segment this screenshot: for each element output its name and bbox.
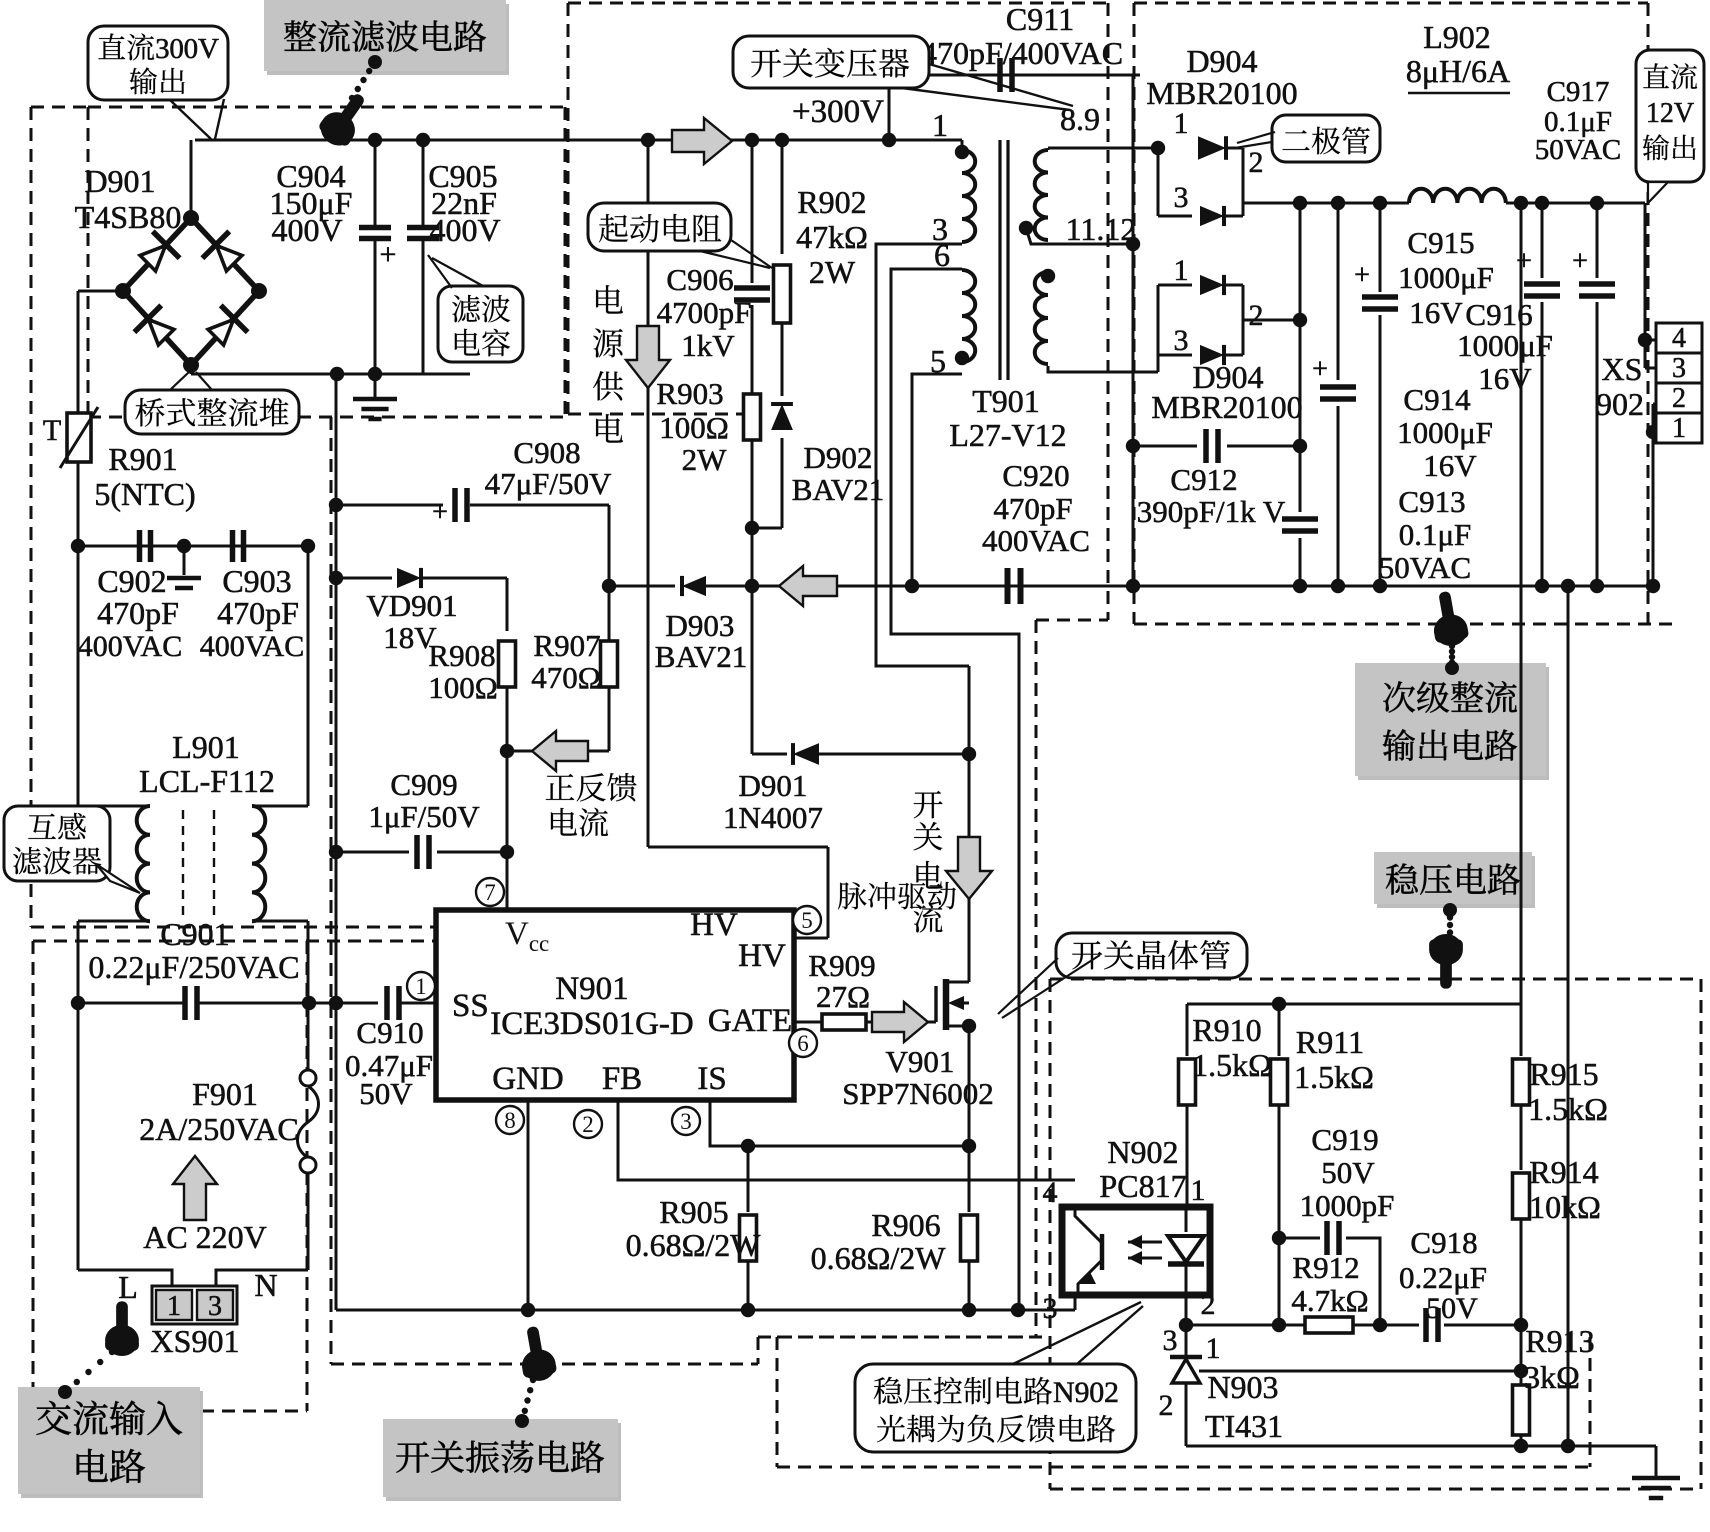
svg-text:SS: SS [452, 988, 489, 1024]
svg-text:4: 4 [1672, 323, 1686, 354]
svg-text:47μF/50V: 47μF/50V [485, 466, 612, 501]
svg-text:IS: IS [697, 1061, 726, 1097]
optocoupler LED [1185, 1207, 1188, 1232]
node dots on +300V rail [368, 133, 382, 147]
wire TL431 ref to divider [1199, 1370, 1521, 1373]
svg-text:D902: D902 [804, 440, 873, 475]
resistor R910 [1186, 1004, 1189, 1056]
capacitor C918 series [1423, 1308, 1429, 1342]
section box: oscillator top segment (dashed) [568, 413, 745, 416]
svg-text:C903: C903 [222, 563, 291, 599]
callout regulation control note [855, 1364, 1136, 1452]
svg-text:HV: HV [738, 938, 786, 974]
wire opto pin3 to primary ground rail [1074, 1295, 1077, 1310]
ground symbol output [1655, 1446, 1658, 1476]
svg-text:470pF/400VAC: 470pF/400VAC [921, 35, 1123, 71]
svg-text:D901: D901 [739, 768, 808, 803]
svg-text:4700pF: 4700pF [657, 295, 752, 330]
svg-text:1: 1 [1174, 254, 1189, 287]
svg-text:D901: D901 [84, 163, 155, 199]
svg-text:GND: GND [492, 1061, 564, 1097]
label C920 continues / C911 snubber top [888, 75, 891, 140]
section box: AC input filter left edge (dashed) [30, 107, 33, 927]
svg-text:1.5kΩ: 1.5kΩ [1528, 1091, 1608, 1127]
svg-text:50V: 50V [1321, 1155, 1375, 1190]
svg-text:L901: L901 [172, 729, 240, 765]
callout startup resistor [588, 203, 731, 251]
wire R903/D902 junction down to D901 line [751, 440, 754, 528]
svg-text:2: 2 [1201, 1288, 1216, 1321]
optocoupler N902 PC817 [1062, 1207, 1210, 1295]
section box: voltage regulator (dashed) [1050, 978, 1701, 981]
capacitor C917 branch [1596, 203, 1599, 278]
gray label secondary rectifier output [1358, 667, 1549, 780]
resistor R912 [1305, 1317, 1353, 1333]
resistor R905 [747, 1146, 750, 1212]
svg-text:2: 2 [1249, 146, 1264, 179]
label power supply feed (vertical) [596, 285, 623, 314]
gray label AC input section [21, 1391, 203, 1498]
svg-text:C908: C908 [513, 435, 580, 470]
callout mutual-inductance filter [4, 806, 110, 881]
svg-text:SPP7N6002: SPP7N6002 [842, 1076, 994, 1111]
ground stub between C902 C903 [183, 546, 186, 575]
svg-text:0.22μF/250VAC: 0.22μF/250VAC [88, 949, 299, 985]
capacitor C920 Y-cap [1005, 568, 1011, 604]
resistor R906 [968, 1146, 971, 1212]
svg-text:C916: C916 [1465, 297, 1532, 332]
gray label oscillator section [386, 1423, 621, 1501]
svg-text:MBR20100: MBR20100 [1151, 389, 1302, 425]
wire HV startup column x=648 [647, 140, 650, 847]
svg-text:50VAC: 50VAC [1379, 550, 1471, 585]
resistor R914 [1520, 1147, 1523, 1170]
svg-text:7: 7 [484, 880, 496, 905]
resistor R915 [1520, 1004, 1523, 1056]
svg-text:N902: N902 [1107, 1134, 1178, 1170]
svg-text:400VAC: 400VAC [200, 630, 304, 663]
svg-text:+: + [1516, 246, 1532, 277]
svg-text:2A/250VAC: 2A/250VAC [139, 1111, 298, 1147]
svg-text:AC 220V: AC 220V [143, 1219, 267, 1255]
wire opto pin2 to feedback node line [1185, 1295, 1188, 1325]
svg-text:R915: R915 [1529, 1056, 1598, 1092]
svg-text:1: 1 [415, 974, 427, 999]
svg-text:2: 2 [1159, 1389, 1174, 1422]
resistor R902 startup [781, 140, 784, 254]
svg-text:R906: R906 [871, 1207, 940, 1243]
svg-text:3: 3 [1174, 324, 1189, 357]
svg-text:PC817: PC817 [1099, 1168, 1186, 1204]
capacitor C909 [336, 851, 409, 854]
svg-text:1: 1 [1206, 1332, 1221, 1365]
svg-text:R913: R913 [1525, 1323, 1594, 1359]
svg-text:3: 3 [1672, 353, 1686, 384]
wire regulator bottom rail [1186, 1445, 1656, 1448]
wire secondary ground line [1133, 585, 1653, 588]
svg-text:T: T [43, 414, 61, 447]
svg-text:C918: C918 [1410, 1225, 1477, 1260]
section box: AC input lower box (dashed) [32, 941, 35, 1411]
fuse F901 [307, 1003, 310, 1071]
svg-text:16V: 16V [1478, 361, 1532, 396]
svg-text:C914: C914 [1403, 382, 1471, 417]
gray label regulator section [1377, 856, 1535, 908]
capacitor C912 snubber [1133, 445, 1197, 448]
svg-text:+: + [380, 238, 397, 271]
label pulse drive [838, 882, 866, 909]
svg-text:MBR20100: MBR20100 [1146, 75, 1297, 111]
zener diode D902 BAV21 [781, 323, 784, 396]
svg-text:R902: R902 [797, 184, 866, 220]
svg-text:C906: C906 [666, 262, 733, 297]
hand pointer rectifier-filter [349, 95, 355, 101]
common-mode choke L901 [77, 546, 80, 806]
svg-text:XS901: XS901 [151, 1323, 240, 1359]
gray arrow feedback left on y=586 [779, 566, 837, 606]
svg-text:11.12: 11.12 [1066, 211, 1137, 247]
wire pin5 to C920 line [912, 374, 962, 586]
svg-text:400V: 400V [271, 212, 342, 248]
svg-text:N901: N901 [555, 971, 628, 1007]
svg-text:C910: C910 [356, 1015, 423, 1050]
svg-text:BAV21: BAV21 [655, 639, 747, 674]
connector XS901 [77, 1003, 80, 1270]
svg-text:50V: 50V [1426, 1292, 1478, 1325]
svg-text:10kΩ: 10kΩ [1529, 1189, 1601, 1225]
capacitor C919 parallel [1279, 1237, 1320, 1240]
svg-text:+: + [1354, 260, 1370, 291]
svg-text:C901: C901 [160, 916, 229, 952]
svg-text:ICE3DS01G-D: ICE3DS01G-D [490, 1006, 694, 1042]
resistor R911 [1278, 1004, 1281, 1056]
callout DC 12V output [1636, 50, 1704, 182]
callout bridge rectifier [125, 390, 299, 434]
svg-text:400VAC: 400VAC [78, 630, 182, 663]
svg-text:TI431: TI431 [1205, 1408, 1283, 1444]
junction dot R903 column on feedback line [745, 579, 759, 593]
svg-text:C912: C912 [1170, 462, 1237, 497]
svg-text:L27-V12: L27-V12 [949, 417, 1066, 453]
svg-text:1: 1 [167, 1291, 181, 1322]
inductor L902 [1409, 189, 1506, 203]
wire C902/C903 line [78, 545, 308, 548]
svg-text:F901: F901 [192, 1076, 258, 1112]
svg-text:5: 5 [801, 908, 813, 933]
svg-text:3: 3 [1174, 181, 1189, 214]
svg-text:1000μF: 1000μF [1397, 415, 1493, 450]
capacitor C910 on SS line [309, 1002, 378, 1005]
wire bridge left vertex to thermistor column [78, 290, 123, 293]
svg-text:902: 902 [1596, 386, 1644, 422]
svg-text:XS: XS [1602, 351, 1643, 387]
wire feedback node line y=1325 [1186, 1324, 1306, 1327]
gray label rectifier-filter section [267, 4, 509, 75]
wire feedback line y=586 with D903 [609, 585, 675, 588]
svg-text:C913: C913 [1398, 484, 1465, 519]
svg-text:+300V: +300V [792, 94, 884, 130]
svg-text:R914: R914 [1529, 1154, 1598, 1190]
gray arrow AC input up [173, 1156, 217, 1220]
svg-text:1: 1 [1191, 1174, 1206, 1207]
svg-text:3: 3 [680, 1109, 692, 1134]
svg-text:GATE: GATE [708, 1003, 792, 1039]
transformer core [998, 140, 1001, 380]
dual diode D904 upper pair [1198, 136, 1226, 160]
svg-text:2: 2 [582, 1112, 594, 1137]
wire C908 line [336, 504, 443, 507]
wire 12V sense down to regulator rail [1520, 203, 1523, 1004]
gray arrow power-feed down [626, 326, 670, 388]
svg-text:390pF/1k V: 390pF/1k V [1137, 494, 1286, 529]
wire drain column x=969 [968, 666, 971, 982]
section box: switching transformer (dashed) [568, 2, 1108, 5]
transformer T901 aux winding pins 6-5 [962, 270, 975, 362]
svg-text:LCL-F112: LCL-F112 [139, 763, 275, 799]
svg-text:100Ω: 100Ω [428, 670, 498, 705]
wire secondary top to D904 anodes [1048, 147, 1158, 150]
section box: oscillator bottom and right (dashed) [331, 1363, 758, 1366]
wire pin6 to primary ground [891, 269, 1019, 1310]
gray arrow switch current down [946, 837, 992, 899]
svg-text:C919: C919 [1311, 1122, 1378, 1157]
svg-text:+: + [1572, 246, 1588, 277]
svg-text:N902: N902 [1053, 1376, 1119, 1409]
pin number circles N901 [476, 878, 504, 906]
svg-text:C911: C911 [1006, 1, 1074, 37]
svg-text:C920: C920 [1002, 458, 1069, 493]
svg-text:+: + [432, 497, 448, 528]
svg-text:0.1μF: 0.1μF [1399, 517, 1472, 552]
svg-text:R908: R908 [428, 638, 495, 673]
section box: rectifier-filter (dashed) [88, 106, 565, 109]
svg-text:N903: N903 [1207, 1369, 1278, 1405]
hand pointer AC input [105, 1301, 139, 1356]
section box: regulation control (dashed) [777, 1336, 1050, 1339]
callout switching transistor [1056, 933, 1247, 978]
svg-text:0.68Ω/2W: 0.68Ω/2W [811, 1240, 947, 1276]
ground symbol rectifier [374, 374, 377, 399]
shunt regulator N903 TI431 [1185, 1325, 1188, 1356]
hand pointer oscillator [515, 1324, 558, 1384]
svg-text:R903: R903 [656, 376, 723, 411]
transformer T901 primary winding pins 1-3 [961, 140, 964, 150]
svg-text:1μF/50V: 1μF/50V [368, 799, 480, 834]
svg-text:C902: C902 [97, 563, 166, 599]
svg-text:12V: 12V [1646, 98, 1694, 129]
svg-text:4: 4 [1043, 1176, 1058, 1209]
wire bridge top to rail [190, 140, 193, 218]
svg-text:8: 8 [504, 1108, 516, 1133]
svg-text:1000pF: 1000pF [1300, 1188, 1395, 1223]
callout diode [1272, 115, 1380, 162]
svg-text:BAV21: BAV21 [792, 472, 884, 507]
svg-text:3kΩ: 3kΩ [1524, 1359, 1580, 1395]
wire 12V output rail [1242, 148, 1245, 203]
svg-text:N: N [254, 1267, 277, 1303]
resistor R908 [506, 578, 509, 631]
label switch current (vertical) [914, 791, 943, 818]
callout DC 300V output [88, 26, 228, 100]
svg-text:8μH/6A: 8μH/6A [1406, 53, 1510, 89]
wire secondary ground down to regulator [1567, 586, 1570, 1446]
svg-text:1000μF: 1000μF [1398, 260, 1494, 295]
svg-text:R912: R912 [1292, 1250, 1359, 1285]
MOSFET V901 SPP7N6002 [928, 1021, 936, 1024]
dual diode D904 lower pair [1200, 275, 1224, 295]
section box: oscillator left edge (dashed) [330, 417, 333, 1364]
svg-text:0.68Ω/2W: 0.68Ω/2W [626, 1227, 762, 1263]
wire IS pin to current sense node [710, 1100, 969, 1146]
capacitor C904 electrolytic [374, 140, 377, 228]
svg-text:470pF: 470pF [993, 491, 1072, 526]
svg-text:2W: 2W [682, 442, 728, 477]
svg-text:16V: 16V [1423, 448, 1477, 483]
capacitor C903 [230, 530, 236, 562]
svg-text:5(NTC): 5(NTC) [94, 476, 195, 512]
svg-text:FB: FB [602, 1061, 642, 1097]
svg-text:8.9: 8.9 [1060, 101, 1100, 137]
gray arrow gate drive right [872, 1002, 928, 1042]
svg-text:HV: HV [690, 907, 738, 943]
capacitor C901 X-cap [78, 1002, 183, 1005]
svg-text:1.5kΩ: 1.5kΩ [1294, 1059, 1374, 1095]
svg-text:T4SB80: T4SB80 [75, 199, 182, 235]
svg-text:100Ω: 100Ω [659, 410, 729, 445]
wire main vertical x=336 [335, 374, 338, 1310]
resistor R907 [601, 641, 618, 687]
resistor R903 [744, 394, 761, 440]
transformer secondary winding 8.9-11.12 [1047, 148, 1050, 150]
svg-text:470pF: 470pF [217, 595, 299, 631]
svg-text:50V: 50V [359, 1076, 413, 1111]
svg-text:470pF: 470pF [97, 595, 179, 631]
section box: secondary rectifier output (dashed) [1134, 2, 1648, 5]
label positive feedback current [546, 774, 574, 800]
svg-text:R909: R909 [808, 948, 875, 983]
svg-text:D904: D904 [1186, 43, 1257, 79]
gray arrow on +300V rail [672, 118, 732, 164]
connector XS902 [1656, 323, 1702, 353]
svg-text:3: 3 [1043, 1292, 1058, 1325]
svg-text:1kV: 1kV [681, 328, 735, 363]
bridge rectifier D901 T4SB80 [123, 218, 259, 365]
capacitor C905 [422, 140, 425, 228]
svg-text:1.5kΩ: 1.5kΩ [1192, 1047, 1272, 1083]
svg-text:1000μF: 1000μF [1457, 328, 1553, 363]
diode D901 1N4007 on y=754 [752, 753, 787, 756]
resistor R913 [1520, 1325, 1523, 1384]
svg-text:R905: R905 [659, 1194, 728, 1230]
svg-text:4.7kΩ: 4.7kΩ [1291, 1283, 1368, 1318]
svg-text:50VAC: 50VAC [1535, 134, 1622, 166]
svg-text:16V: 16V [1409, 295, 1463, 330]
svg-text:L: L [118, 1269, 138, 1305]
svg-text:2: 2 [1249, 299, 1264, 332]
IC N901 ICE3DS01G-D box [436, 910, 794, 1100]
svg-text:C917: C917 [1547, 76, 1610, 108]
svg-text:27Ω: 27Ω [816, 979, 870, 1014]
capacitor C902 [137, 530, 143, 562]
thermistor R901 NTC [77, 291, 80, 413]
svg-text:R911: R911 [1296, 1024, 1364, 1060]
capacitor C916 branch [1541, 203, 1544, 278]
svg-text:C915: C915 [1407, 225, 1474, 260]
svg-text:0.22μF: 0.22μF [1399, 1260, 1487, 1295]
svg-text:+: + [1312, 354, 1328, 385]
wire FB pin to optocoupler [618, 1100, 1075, 1180]
svg-text:2: 2 [1672, 383, 1686, 414]
primary ground rail [336, 1309, 1075, 1312]
capacitor C913 branch [1299, 203, 1302, 512]
svg-text:470Ω: 470Ω [531, 660, 601, 695]
svg-text:D903: D903 [666, 608, 735, 643]
svg-text:6: 6 [797, 1031, 809, 1056]
capacitor C914 branch [1337, 203, 1340, 380]
node dots Vcc column x=507 [500, 744, 514, 758]
optocoupler phototransistor [1100, 1234, 1105, 1270]
wire GND pin to primary ground rail [527, 1100, 530, 1310]
wire secondary lower winding to lower D904 [1048, 366, 1158, 372]
svg-text:47kΩ: 47kΩ [796, 219, 868, 255]
svg-text:1: 1 [932, 107, 948, 143]
wire ground to XS902 [1652, 432, 1655, 586]
svg-text:V901: V901 [886, 1044, 955, 1079]
svg-text:300V: 300V [155, 33, 219, 65]
wire regulator top rail [1187, 1003, 1521, 1006]
wire +300V top rail [195, 139, 962, 142]
zener diode VD901 18V on line y=578 [336, 577, 392, 580]
svg-text:2W: 2W [809, 254, 856, 290]
svg-text:R907: R907 [533, 628, 600, 663]
callout switching transformer [733, 36, 929, 88]
capacitor C915 branch [1379, 203, 1382, 292]
wire Vcc pin into N901 [506, 852, 509, 910]
wire 12V rail to XS902 [1644, 203, 1647, 340]
hand pointer regulator [1447, 937, 1453, 943]
hand pointer secondary [1427, 589, 1470, 649]
svg-text:400VAC: 400VAC [982, 523, 1090, 558]
svg-text:L902: L902 [1423, 19, 1491, 55]
wire bridge bottom rail [190, 365, 193, 374]
wire R911 column down to feedback node [1278, 1238, 1281, 1325]
svg-text:R910: R910 [1192, 1012, 1261, 1048]
gray arrow positive feedback left [532, 731, 588, 771]
wire pin3 to drain (switching node) [876, 244, 969, 666]
svg-text:1N4007: 1N4007 [723, 800, 823, 835]
node dots x=336 [329, 498, 343, 512]
svg-text:1: 1 [1174, 107, 1189, 140]
svg-text:400V: 400V [429, 212, 500, 248]
svg-text:C909: C909 [390, 767, 457, 802]
svg-text:R901: R901 [108, 441, 177, 477]
svg-text:T901: T901 [972, 383, 1040, 419]
callout filter capacitor [438, 286, 523, 362]
svg-text:VD901: VD901 [366, 588, 457, 623]
section box: AC filter bottom double dashed [31, 926, 566, 929]
wire center tap 11.12 to ground column [1026, 228, 1133, 244]
svg-text:1: 1 [1672, 413, 1686, 444]
capacitor C906 on startup divider [751, 140, 754, 283]
svg-text:3: 3 [1163, 1324, 1178, 1357]
svg-text:3: 3 [208, 1291, 222, 1322]
resistor R909 gate drive [794, 1021, 822, 1024]
